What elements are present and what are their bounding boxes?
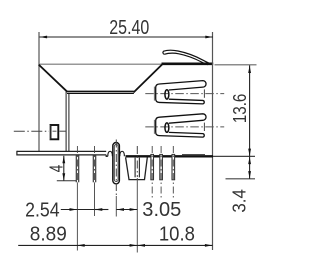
side spring slot 2 centerline (145, 126, 224, 128)
pin E (160, 154, 162, 179)
pin C centerline (136, 146, 138, 177)
svg-text:8.89: 8.89 (30, 224, 67, 246)
svg-text:13.6: 13.6 (229, 94, 250, 124)
3.05 right arrow (130, 208, 138, 211)
shell front chamfer diagonal (39, 65, 68, 92)
4 bottom arrow (62, 173, 65, 181)
bottom lip line (182, 154, 205, 156)
shell top rear thick edge (162, 62, 214, 65)
flange left end cap (16, 151, 18, 156)
10.8 right arrow (205, 244, 213, 247)
shell bottom thick edge (126, 155, 214, 157)
peg centerline (14, 130, 49, 132)
board lock leg (stadium) outer (113, 143, 120, 184)
dimension 13.6 top extension line (215, 64, 257, 66)
pin tip extension line (3.4 bottom) (226, 178, 256, 180)
bottom face extension line (13.6 bottom / 3.4 top) (213, 155, 255, 157)
4 top arrow (62, 156, 65, 164)
pin C extension line (8.89 / 10.8 / 3.05) (136, 178, 138, 253)
pin D centerline (151, 146, 153, 200)
2.54 right arrow (tail to right) (95, 209, 109, 211)
pin B centerline (94, 146, 96, 182)
shell left wall / 25.40 left extension line (38, 32, 40, 151)
svg-text:4: 4 (45, 165, 66, 173)
bent pin bucket (126, 158, 148, 180)
board lock leg inner (114, 145, 118, 182)
slot 1 arc center marks (153, 87, 155, 101)
pin A extension line (2.54 / 8.89) (76, 182, 78, 250)
spring 1 eye (165, 90, 169, 99)
side spring slot 1 centerline (145, 93, 224, 95)
bottom flange double line (17, 150, 106, 152)
spring 2 eye (165, 123, 169, 132)
dimension 25.40 dim line (39, 36, 213, 38)
3.4 top arrow (248, 157, 251, 165)
pin F (172, 154, 174, 179)
svg-text:10.8: 10.8 (159, 223, 195, 245)
13.6 top arrow (248, 66, 251, 74)
3.05 left arrow (117, 208, 125, 211)
pin D (151, 154, 153, 179)
25.40 left arrow (40, 36, 48, 39)
side spring fork 2 outline (156, 114, 206, 137)
svg-text:2.54: 2.54 (25, 199, 60, 221)
flange step down (106, 155, 108, 157)
slot 2 arc center marks (153, 120, 155, 134)
25.40 right arrow (205, 36, 213, 39)
3.4 bottom arrow (248, 171, 251, 179)
8.89 right arrow (130, 244, 138, 247)
dimension 3.05 dim line (116, 209, 137, 211)
10.8 left arrow (138, 244, 146, 247)
13.6 dim line (249, 65, 251, 156)
2.54 line between extension lines (77, 209, 94, 211)
shell right edge / shared extension line for 25.40 and 10.8 (212, 32, 214, 250)
pin F centerline (172, 146, 174, 200)
pin B (92, 155, 94, 182)
3.4 dim line (249, 156, 251, 178)
shell inner wall (double line) (65, 92, 67, 151)
pin A centerline (76, 146, 78, 182)
svg-text:3.4: 3.4 (229, 189, 250, 213)
board lock dome right (120, 151, 125, 156)
dimension 8.89 / 10.8 dim line (18, 244, 212, 246)
2.54 dim line with left arrow (61, 209, 77, 211)
pin E centerline (160, 146, 162, 200)
4 bottom extension line (57, 180, 76, 182)
board lock dome left (108, 151, 113, 156)
board lock centerline (115, 140, 117, 197)
svg-text:25.40: 25.40 (109, 17, 149, 39)
pin A (75, 155, 77, 182)
latch spring (163, 50, 211, 64)
13.6 bottom arrow (248, 149, 251, 157)
pin C (inside bucket) (134, 158, 136, 178)
shell fold double horizontal lines (66, 90, 134, 92)
dimension 4 dim line (63, 156, 65, 181)
8.89 left arrow (77, 244, 85, 247)
shell top edge (thin) (39, 63, 162, 65)
pin B extension line (2.54) (94, 182, 96, 216)
shell rear fold diagonal (134, 64, 163, 92)
side board peg (51, 125, 59, 139)
svg-text:3.05: 3.05 (142, 199, 181, 221)
side spring fork 1 outline (156, 81, 206, 104)
